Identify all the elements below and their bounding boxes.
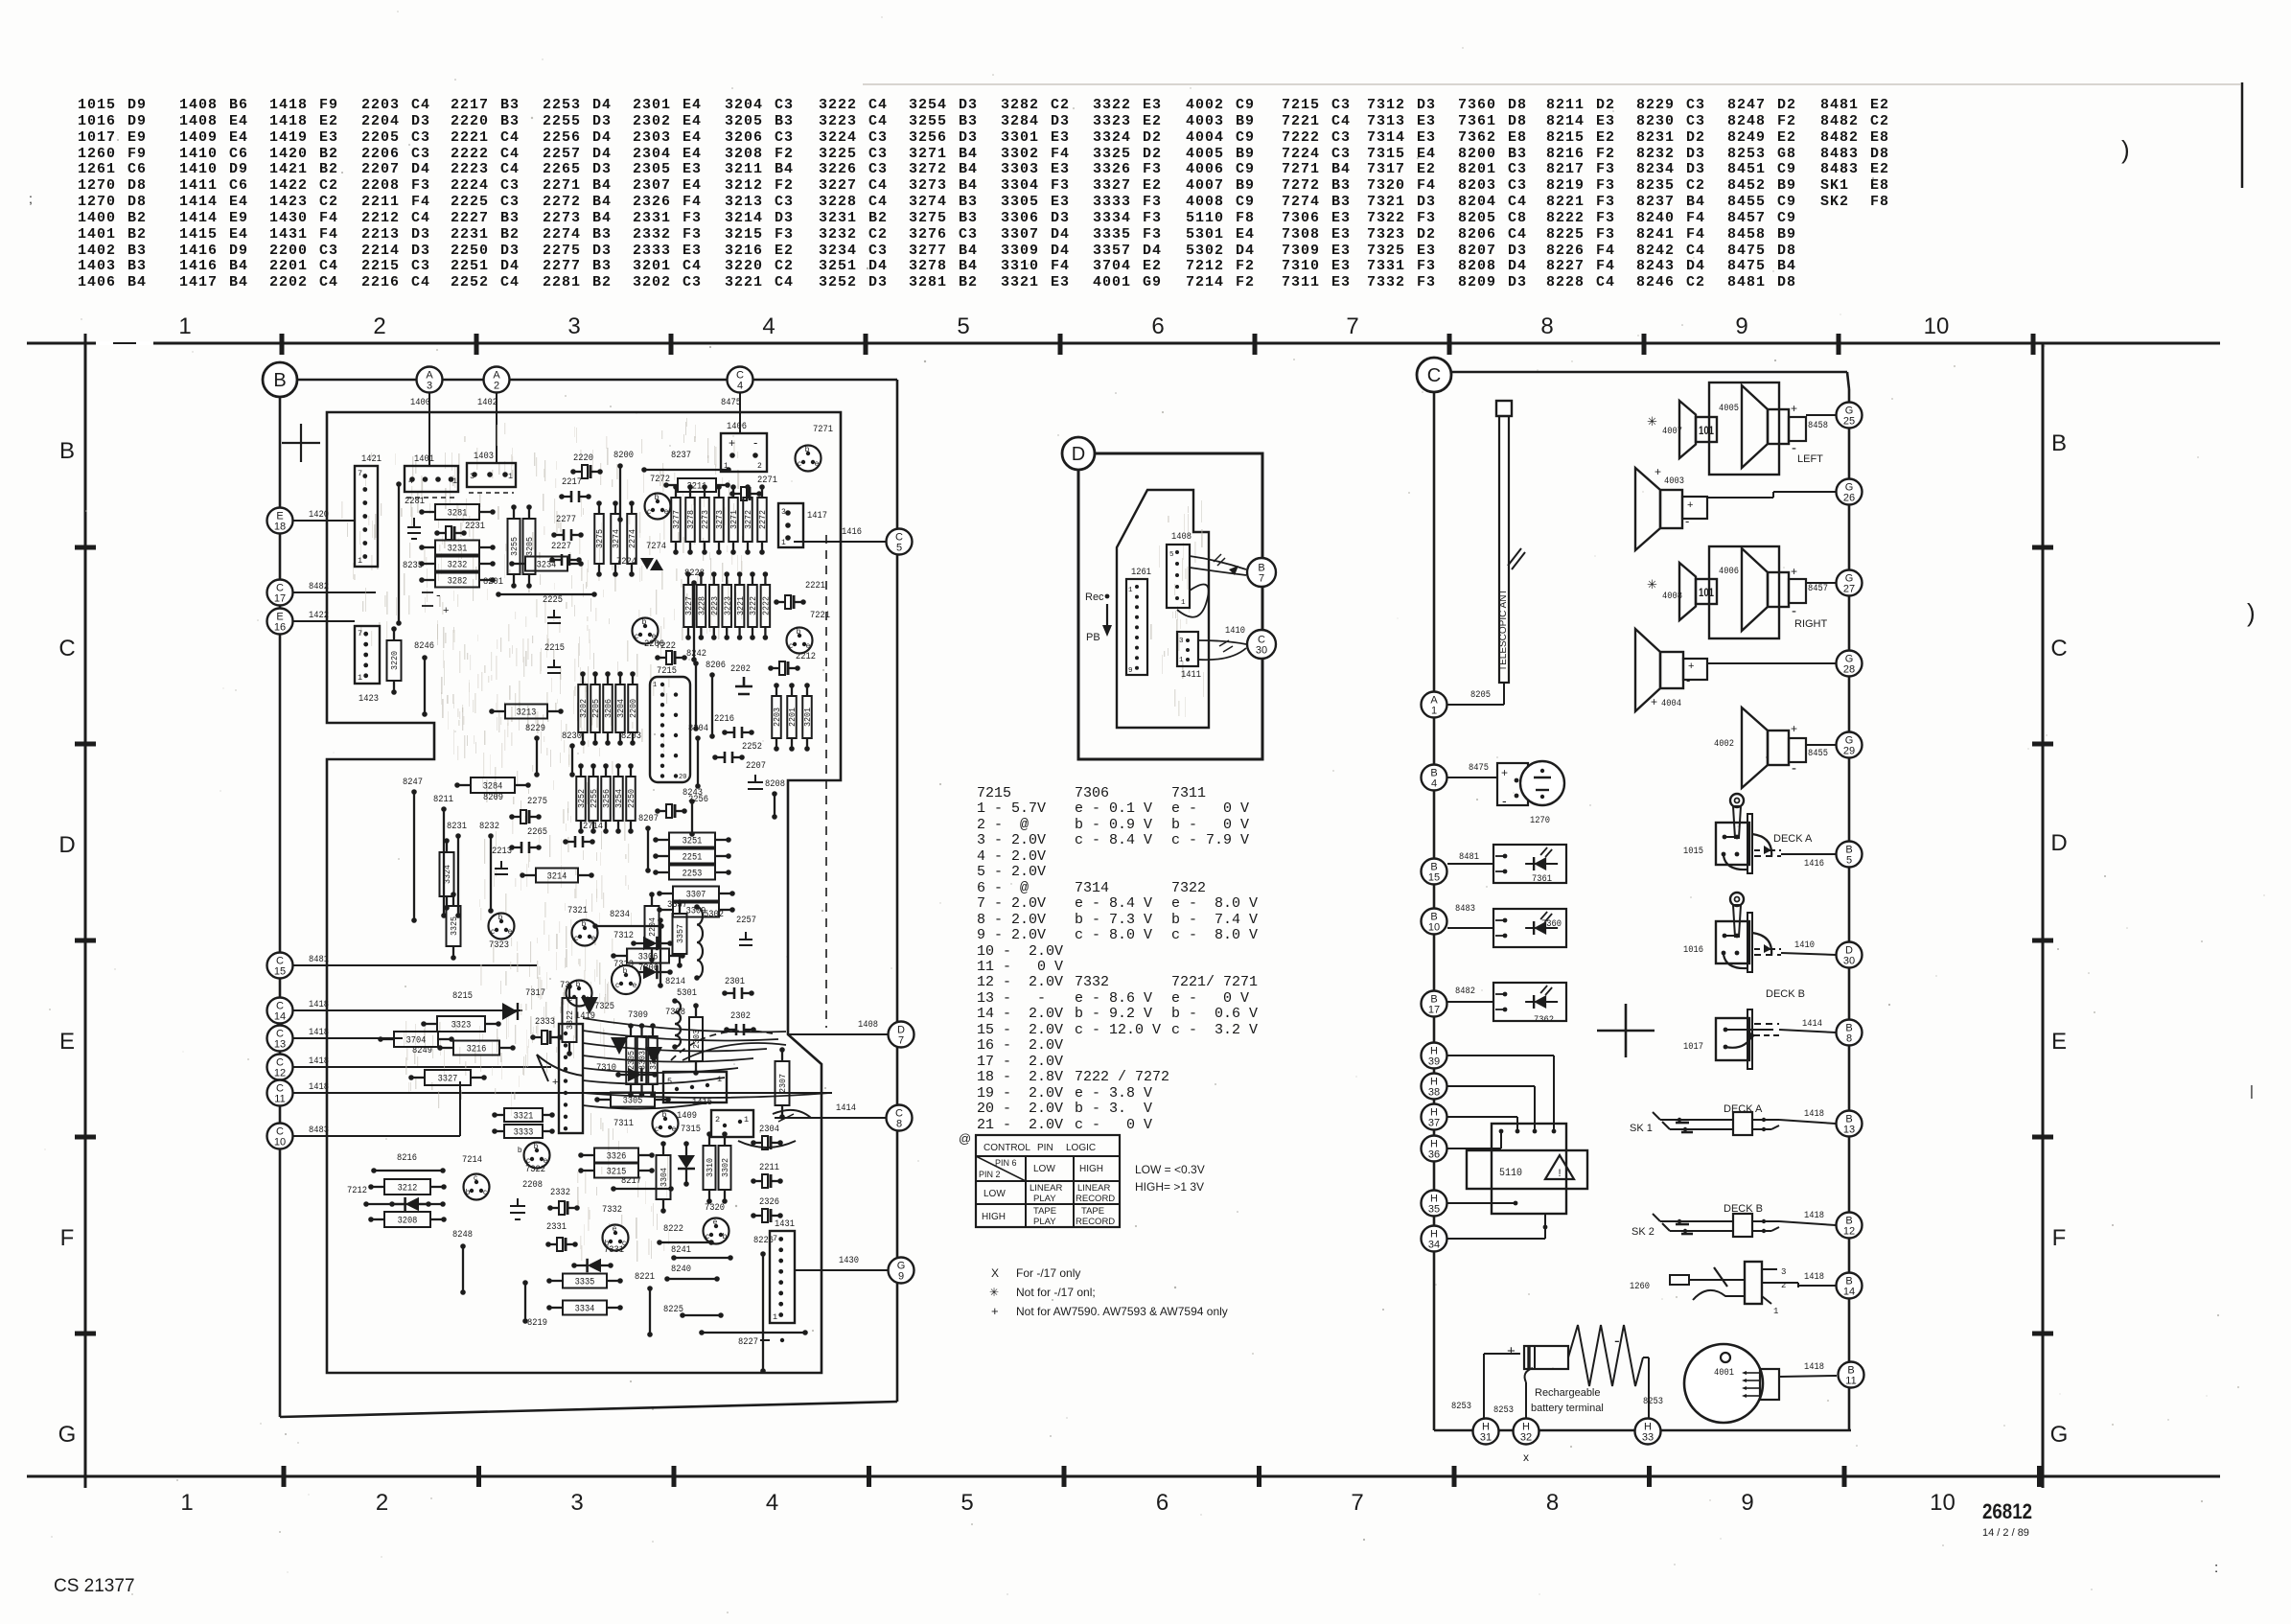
svg-text:Not for AW7590. AW7593 & A: Not for AW7590. AW7593 & AW7594 only [1016,1305,1228,1318]
svg-text:3213: 3213 [517,708,537,719]
svg-text:7331: 7331 [604,1244,624,1256]
svg-text:7: 7 [1346,313,1358,339]
svg-text:F: F [2052,1225,2067,1251]
svg-text:2216: 2216 [714,713,734,725]
svg-text:@: @ [959,1131,971,1146]
svg-text:2304: 2304 [759,1124,779,1135]
svg-text:7332: 7332 [602,1204,622,1216]
svg-text:2211: 2211 [759,1162,779,1173]
svg-text:30: 30 [1843,956,1855,967]
svg-text:1: 1 [653,682,657,689]
svg-text:7315: 7315 [681,1124,701,1135]
svg-text:14: 14 [1843,1287,1855,1298]
svg-text:4006: 4006 [1719,566,1739,577]
svg-text:3254: 3254 [614,789,624,808]
svg-text:8200: 8200 [613,450,634,461]
svg-text:1016: 1016 [1683,944,1703,956]
svg-text:8221: 8221 [635,1271,655,1283]
svg-text:1406: 1406 [727,421,747,432]
svg-text:c: c [655,1125,659,1133]
svg-text:c: c [474,1173,477,1182]
svg-text:1415: 1415 [692,1097,712,1108]
svg-text:2222: 2222 [762,596,772,615]
svg-text:1418: 1418 [1804,1210,1824,1221]
svg-text:4: 4 [766,1490,778,1516]
svg-text:13: 13 [1843,1125,1855,1136]
svg-text:3274: 3274 [612,529,621,548]
svg-text:8215: 8215 [452,990,473,1002]
svg-text:26812: 26812 [1982,1499,2032,1523]
svg-text:1402: 1402 [477,397,498,408]
svg-text:1417: 1417 [807,510,827,522]
svg-text:-: - [753,435,757,450]
svg-text:8225: 8225 [663,1304,683,1315]
svg-text:+: + [1651,695,1657,708]
svg-text:8230: 8230 [562,731,582,742]
svg-text:1: 1 [452,476,457,486]
svg-text:8481: 8481 [1459,851,1479,863]
svg-text:8253: 8253 [1643,1396,1663,1407]
svg-text:D: D [1072,444,1085,465]
svg-text:PIN 6: PIN 6 [995,1158,1017,1168]
svg-text:DECK A: DECK A [1724,1103,1763,1115]
svg-text:3: 3 [427,381,432,392]
svg-text:8209: 8209 [483,792,503,803]
svg-text:8208: 8208 [765,778,785,790]
svg-text:7306: 7306 [638,963,659,974]
svg-text:3302: 3302 [720,1158,730,1177]
svg-text:1270: 1270 [1530,815,1550,826]
svg-text:7320: 7320 [705,1202,725,1214]
svg-text:1017: 1017 [1683,1041,1703,1053]
svg-text:1015: 1015 [1683,846,1703,857]
svg-text:3206: 3206 [604,699,613,718]
svg-text:5: 5 [667,1077,672,1086]
svg-text:c: c [491,927,495,936]
svg-text:✳: ✳ [989,1286,999,1299]
svg-text:7: 7 [773,1234,777,1243]
svg-text:8203: 8203 [621,731,641,742]
svg-text:-: - [1686,673,1690,687]
svg-text:3306: 3306 [638,952,659,963]
svg-text:SK 1: SK 1 [1630,1123,1653,1134]
svg-text:10: 10 [1930,1490,1955,1516]
svg-text:c: c [574,934,578,942]
svg-text:8231: 8231 [447,821,467,832]
svg-text:): ) [2121,135,2130,164]
svg-text:PLAY: PLAY [1033,1217,1056,1227]
svg-text:2202: 2202 [730,663,751,675]
svg-text:1403: 1403 [474,451,494,462]
svg-text:3228: 3228 [698,596,707,615]
svg-text:1418: 1418 [1804,1108,1824,1120]
svg-text:1416: 1416 [1804,858,1824,870]
svg-text:4004: 4004 [1661,698,1681,709]
svg-text:1: 1 [744,1115,749,1125]
svg-text:7212: 7212 [347,1185,367,1196]
svg-text:3273: 3273 [715,510,725,529]
svg-text:28: 28 [1843,664,1855,676]
svg-text:8253: 8253 [1451,1401,1471,1412]
svg-text:B: B [273,370,286,391]
svg-text:2: 2 [376,1490,388,1516]
svg-text:RECORD: RECORD [1076,1217,1115,1227]
svg-text:c: c [706,1232,709,1241]
svg-text:-: - [436,587,441,602]
svg-text:+: + [1791,402,1797,415]
svg-text:1410: 1410 [1225,625,1245,637]
svg-text:8211: 8211 [433,794,453,805]
svg-text:8253: 8253 [1493,1404,1514,1416]
svg-text:HIGH: HIGH [1079,1164,1103,1174]
svg-text:30: 30 [1256,645,1267,657]
svg-text:B: B [2051,430,2067,456]
svg-text:2217: 2217 [562,476,582,488]
svg-text:3322: 3322 [565,1010,575,1030]
svg-text:b: b [534,1142,539,1150]
svg-text:3326: 3326 [607,1151,627,1163]
svg-text:33: 33 [1642,1432,1654,1444]
svg-text:1: 1 [1773,1307,1778,1316]
svg-text:1409: 1409 [677,1110,697,1122]
svg-text:10: 10 [1924,313,1950,339]
svg-text:3333: 3333 [514,1127,534,1139]
svg-text:2: 2 [373,313,385,339]
svg-text:2307: 2307 [777,1074,788,1093]
svg-text:2256: 2256 [688,794,708,805]
svg-text:+: + [991,1304,999,1318]
svg-text:3334: 3334 [575,1304,595,1315]
svg-text:3323: 3323 [451,1020,472,1032]
svg-text:27: 27 [1843,584,1855,595]
svg-text:3221: 3221 [736,596,746,615]
svg-text:1430: 1430 [839,1255,859,1266]
svg-text:For -/17 only: For -/17 only [1016,1266,1080,1280]
svg-text:17: 17 [1428,1005,1440,1016]
svg-text:16: 16 [274,622,286,634]
svg-text:+: + [729,436,735,450]
svg-text:c: c [483,1188,487,1196]
svg-text:7309: 7309 [628,1009,648,1021]
svg-text:2212: 2212 [796,651,816,662]
svg-text:9: 9 [1735,313,1747,339]
svg-text:101: 101 [1699,586,1714,599]
svg-text:b: b [466,1188,471,1196]
svg-text:3204: 3204 [616,699,626,718]
svg-text:8228: 8228 [684,568,705,579]
svg-text:5: 5 [1846,855,1852,867]
svg-text:8240: 8240 [671,1264,691,1275]
svg-text:8207: 8207 [638,813,659,824]
svg-text:3222: 3222 [749,596,758,615]
svg-text:8: 8 [1540,313,1553,339]
svg-text:2272: 2272 [758,510,768,529]
svg-text:2203: 2203 [773,708,782,727]
svg-text:1423: 1423 [359,693,379,705]
svg-text:7274: 7274 [646,541,666,552]
svg-text:3216: 3216 [467,1044,487,1056]
svg-text:1410: 1410 [1794,940,1815,951]
svg-text:8205: 8205 [1470,689,1491,701]
svg-text:1: 1 [724,462,729,471]
svg-text:c: c [798,459,801,468]
svg-text:1: 1 [180,1490,193,1516]
svg-text:b: b [498,913,503,921]
svg-text:G: G [58,1422,77,1448]
svg-text:2265: 2265 [527,826,547,838]
svg-text:1260: 1260 [1630,1281,1650,1292]
svg-text:DECK B: DECK B [1766,988,1805,1000]
svg-text:1: 1 [1128,587,1133,594]
svg-text:x: x [1523,1450,1529,1464]
svg-text:8482: 8482 [1455,986,1475,997]
svg-text:8227: 8227 [738,1336,758,1348]
svg-text:E: E [59,1029,75,1055]
svg-text:1: 1 [358,673,362,683]
svg-text:HIGH= >1 3V: HIGH= >1 3V [1135,1180,1204,1194]
svg-text:3234: 3234 [537,560,557,571]
svg-text:8247: 8247 [403,777,423,788]
svg-text:-: - [1792,603,1796,619]
svg-text:E: E [2051,1029,2067,1055]
svg-text:9: 9 [1128,667,1133,675]
svg-text:e: e [613,1224,617,1233]
svg-text:3205: 3205 [524,537,535,556]
svg-text:1421: 1421 [361,453,382,465]
svg-text:1: 1 [1431,706,1437,717]
svg-text:8475: 8475 [1469,762,1489,774]
svg-text:1418: 1418 [1804,1361,1824,1373]
svg-text:2: 2 [757,462,762,471]
svg-text:1: 1 [508,472,513,481]
svg-text:2275: 2275 [527,796,547,807]
svg-text:2301: 2301 [725,976,745,987]
svg-text:5301: 5301 [677,987,697,999]
svg-text:F: F [60,1225,75,1251]
svg-text:7311: 7311 [613,1118,634,1129]
svg-text:8246: 8246 [414,640,434,652]
svg-text:2252: 2252 [742,741,762,753]
svg-text:11: 11 [274,1094,285,1105]
svg-text:3307: 3307 [686,890,706,901]
svg-text:1431: 1431 [775,1218,795,1230]
svg-text:5: 5 [1169,551,1174,559]
svg-text:3277: 3277 [672,510,682,529]
svg-text:2333: 2333 [535,1016,555,1028]
svg-text:3278: 3278 [686,510,696,529]
svg-text:2274: 2274 [628,529,637,548]
svg-text:2227: 2227 [551,541,571,552]
svg-text:4: 4 [737,381,743,392]
svg-text:1414: 1414 [1802,1018,1822,1030]
svg-text:3303: 3303 [638,1051,648,1070]
svg-text:+: + [1655,465,1661,478]
svg-text:-: - [1792,440,1796,456]
svg-text:D: D [58,832,75,858]
svg-text:7322: 7322 [525,1164,545,1175]
svg-text:8: 8 [1546,1490,1559,1516]
svg-text:3: 3 [470,472,474,481]
svg-text:PIN: PIN [1037,1143,1053,1153]
svg-text:8234: 8234 [610,909,630,920]
svg-text:c: c [615,981,619,989]
svg-text:b: b [723,1232,728,1241]
svg-text:CS 21377: CS 21377 [54,1576,135,1596]
svg-text:2223: 2223 [710,596,720,615]
svg-text:3281: 3281 [448,508,468,520]
svg-text:1408: 1408 [858,1019,878,1031]
svg-text:7321: 7321 [567,905,588,916]
svg-text:|: | [2250,1083,2254,1100]
svg-text:7310: 7310 [596,1062,616,1074]
svg-text:;: ; [29,191,33,206]
svg-text:2277: 2277 [556,514,576,525]
svg-text:3325: 3325 [449,916,459,936]
svg-text:Rechargeable: Rechargeable [1535,1387,1601,1399]
svg-text:LOW: LOW [984,1189,1006,1199]
svg-text:8204: 8204 [688,723,708,734]
svg-text:7325: 7325 [594,1001,614,1012]
svg-text:CONTROL: CONTROL [984,1143,1030,1153]
svg-text:2221: 2221 [805,580,825,592]
svg-text:2251: 2251 [683,852,703,864]
svg-text:2231: 2231 [465,521,485,532]
svg-text:3282: 3282 [448,576,468,588]
svg-text:e: e [713,1218,718,1226]
svg-text:+: + [1687,499,1693,511]
svg-text:2273: 2273 [701,510,710,529]
svg-text:1400: 1400 [410,397,430,408]
svg-text:Not for -/17 onl;: Not for -/17 onl; [1016,1286,1096,1299]
svg-text:TELESCOPIC ANT: TELESCOPIC ANT [1498,589,1509,671]
svg-text:3201: 3201 [803,708,813,727]
svg-text:3310: 3310 [705,1158,715,1177]
svg-text:B: B [59,438,75,464]
svg-text:2250: 2250 [627,789,636,808]
svg-text:7271: 7271 [813,424,833,435]
svg-text:13: 13 [274,1039,286,1051]
svg-text:8214: 8214 [665,976,685,987]
svg-text:10: 10 [274,1137,286,1148]
svg-text:PLAY: PLAY [1033,1194,1056,1204]
svg-text:-: - [1792,760,1796,777]
svg-text::: : [2214,1560,2218,1576]
svg-text:e: e [815,459,820,468]
svg-text:b: b [797,627,801,636]
svg-text:1261: 1261 [1131,567,1151,578]
svg-text:c: c [647,507,651,516]
svg-text:3324: 3324 [442,865,452,884]
svg-text:3227: 3227 [684,596,694,615]
svg-text:5: 5 [896,543,902,554]
svg-text:8241: 8241 [671,1244,691,1256]
svg-text:2206: 2206 [644,638,664,650]
svg-text:-: - [1502,793,1507,808]
svg-text:c: c [789,641,793,650]
svg-text:8248: 8248 [452,1229,473,1241]
svg-text:3232: 3232 [448,560,468,571]
svg-text:1411: 1411 [1181,669,1201,681]
svg-text:31: 31 [1480,1432,1492,1444]
svg-text:3: 3 [570,1490,583,1516]
svg-text:LOW: LOW [1033,1164,1055,1174]
svg-text:2: 2 [494,381,499,392]
svg-text:7214: 7214 [462,1154,482,1166]
svg-text:32: 32 [1520,1432,1532,1444]
svg-text:3271: 3271 [729,510,739,529]
svg-text:2200: 2200 [629,699,638,718]
svg-text:7224: 7224 [616,556,636,568]
svg-text:+: + [443,605,449,616]
svg-text:8232: 8232 [479,821,499,832]
svg-text:7312: 7312 [613,930,634,941]
svg-text:+: + [1791,565,1797,578]
svg-text:8229: 8229 [525,723,545,734]
svg-text:5110: 5110 [1499,1168,1522,1179]
svg-text:2201: 2201 [788,708,798,727]
svg-text:7215: 7215 [657,665,677,677]
svg-text:TAPE: TAPE [1033,1206,1056,1217]
svg-text:35: 35 [1428,1204,1440,1216]
svg-text:3704: 3704 [406,1035,427,1047]
svg-text:18: 18 [274,522,286,533]
svg-text:e: e [664,507,669,516]
svg-text:2332: 2332 [550,1187,570,1198]
svg-text:b: b [623,966,628,975]
svg-text:RECORD: RECORD [1076,1194,1115,1204]
svg-text:3214: 3214 [547,871,567,883]
svg-text:4002: 4002 [1714,738,1734,750]
svg-text:5302: 5302 [704,909,724,920]
svg-text:4001: 4001 [1714,1367,1734,1379]
svg-text:4003: 4003 [1664,476,1684,487]
svg-text:7: 7 [1351,1490,1363,1516]
svg-text:8217: 8217 [621,1175,641,1187]
svg-text:3212: 3212 [398,1183,418,1195]
svg-text:C: C [58,636,75,661]
svg-text:1416: 1416 [842,526,862,538]
svg-text:-: - [1685,514,1689,528]
svg-text:+: + [1791,722,1797,735]
svg-text:8: 8 [1846,1033,1852,1045]
svg-text:8458: 8458 [1808,420,1828,431]
svg-text:2: 2 [715,1115,720,1125]
svg-text:3223: 3223 [723,596,732,615]
svg-text:2213: 2213 [492,846,512,857]
svg-text:39: 39 [1428,1056,1440,1068]
svg-text:DECK A: DECK A [1773,833,1813,845]
svg-text:2302: 2302 [730,1010,751,1022]
svg-text:Rec: Rec [1085,592,1104,603]
svg-text:1: 1 [781,539,786,547]
svg-text:3231: 3231 [448,544,468,555]
svg-text:37: 37 [1428,1118,1440,1129]
svg-text:38: 38 [1428,1087,1440,1099]
svg-text:e: e [508,927,513,936]
svg-text:6: 6 [1156,1490,1169,1516]
svg-text:+: + [1688,661,1694,672]
svg-text:1418: 1418 [1804,1271,1824,1283]
svg-text:1408: 1408 [1171,531,1192,543]
svg-text:b: b [582,919,587,928]
svg-text:C: C [1427,365,1441,386]
svg-text:3255: 3255 [509,537,520,556]
svg-text:14: 14 [274,1011,286,1023]
svg-text:10: 10 [1428,922,1440,934]
svg-text:3: 3 [567,313,580,339]
svg-text:20: 20 [679,774,686,781]
svg-text:4: 4 [762,313,775,339]
